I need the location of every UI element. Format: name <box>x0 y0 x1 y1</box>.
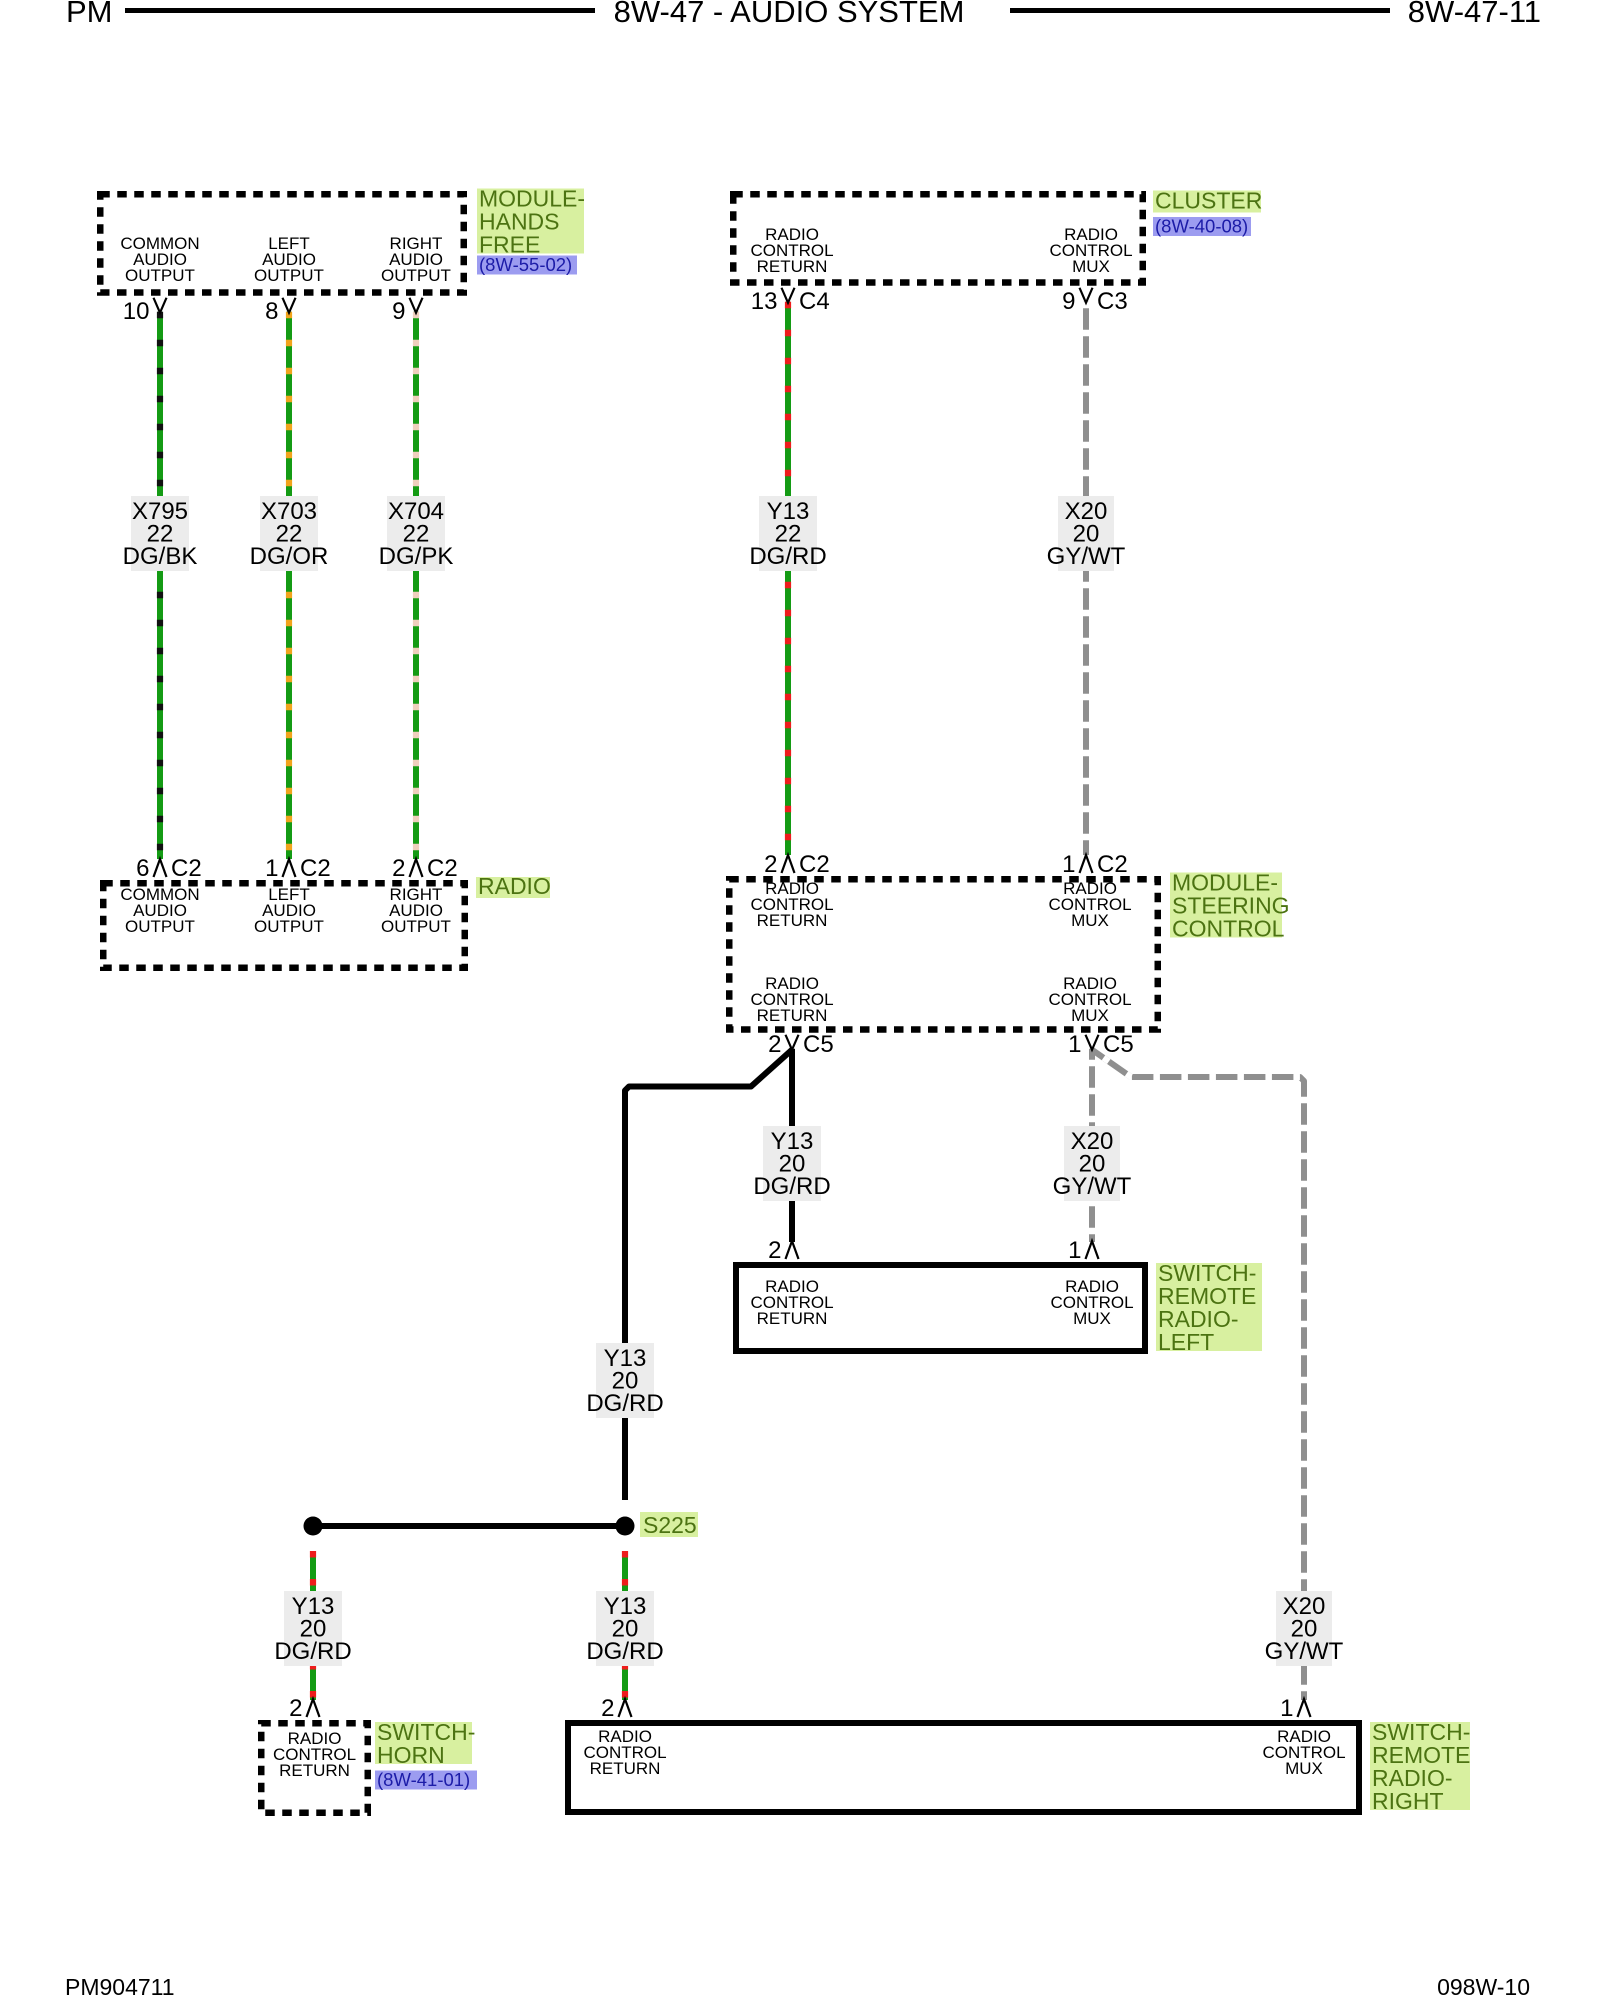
svg-text:2: 2 <box>764 851 777 878</box>
svg-text:1: 1 <box>1062 851 1075 878</box>
svg-text:LEFT: LEFT <box>1158 1329 1214 1355</box>
svg-text:1: 1 <box>1068 1237 1081 1264</box>
svg-text:DG/RD: DG/RD <box>274 1638 351 1665</box>
svg-text:MUX: MUX <box>1073 1309 1111 1328</box>
svg-text:(8W-41-01): (8W-41-01) <box>377 1769 470 1790</box>
svg-text:DG/BK: DG/BK <box>123 543 198 570</box>
svg-text:RETURN: RETURN <box>757 1309 828 1328</box>
svg-text:1: 1 <box>1068 1031 1081 1058</box>
svg-text:098W-10: 098W-10 <box>1437 1974 1530 2000</box>
svg-text:MUX: MUX <box>1071 911 1109 930</box>
svg-text:OUTPUT: OUTPUT <box>125 917 195 936</box>
svg-text:8W-47-11: 8W-47-11 <box>1408 0 1541 29</box>
svg-text:DG/OR: DG/OR <box>250 543 329 570</box>
svg-text:RADIO: RADIO <box>478 873 551 899</box>
svg-text:10: 10 <box>123 298 150 325</box>
svg-text:MUX: MUX <box>1285 1759 1323 1778</box>
svg-text:GY/WT: GY/WT <box>1265 1638 1344 1665</box>
svg-text:2: 2 <box>601 1695 614 1722</box>
svg-text:8W-47 - AUDIO SYSTEM: 8W-47 - AUDIO SYSTEM <box>614 0 965 29</box>
svg-text:2: 2 <box>289 1695 302 1722</box>
svg-text:8: 8 <box>265 298 278 325</box>
svg-text:DG/RD: DG/RD <box>586 1638 663 1665</box>
svg-text:1: 1 <box>1280 1695 1293 1722</box>
svg-text:RIGHT: RIGHT <box>1372 1788 1444 1814</box>
svg-text:C2: C2 <box>171 855 202 882</box>
svg-text:C3: C3 <box>1097 288 1128 315</box>
svg-text:GY/WT: GY/WT <box>1047 543 1126 570</box>
svg-text:DG/RD: DG/RD <box>749 543 826 570</box>
svg-text:C2: C2 <box>427 855 458 882</box>
svg-text:9: 9 <box>1062 288 1075 315</box>
svg-text:OUTPUT: OUTPUT <box>254 917 324 936</box>
svg-text:C4: C4 <box>799 288 830 315</box>
svg-text:OUTPUT: OUTPUT <box>381 266 451 285</box>
svg-text:1: 1 <box>265 855 278 882</box>
svg-text:GY/WT: GY/WT <box>1053 1173 1132 1200</box>
svg-text:9: 9 <box>392 298 405 325</box>
svg-text:MUX: MUX <box>1072 257 1110 276</box>
svg-text:C2: C2 <box>1097 851 1128 878</box>
svg-text:DG/RD: DG/RD <box>753 1173 830 1200</box>
svg-text:OUTPUT: OUTPUT <box>254 266 324 285</box>
svg-text:C2: C2 <box>300 855 331 882</box>
svg-text:2: 2 <box>768 1237 781 1264</box>
svg-text:RETURN: RETURN <box>590 1759 661 1778</box>
svg-text:C5: C5 <box>803 1031 834 1058</box>
svg-text:RETURN: RETURN <box>279 1761 350 1780</box>
svg-text:RETURN: RETURN <box>757 911 828 930</box>
svg-text:DG/PK: DG/PK <box>379 543 454 570</box>
svg-text:2: 2 <box>392 855 405 882</box>
svg-text:6: 6 <box>136 855 149 882</box>
svg-text:CLUSTER: CLUSTER <box>1155 188 1262 214</box>
svg-text:HORN: HORN <box>377 1742 445 1768</box>
svg-text:(8W-55-02): (8W-55-02) <box>479 254 572 275</box>
svg-text:RETURN: RETURN <box>757 1006 828 1025</box>
svg-text:2: 2 <box>768 1031 781 1058</box>
svg-text:PM904711: PM904711 <box>65 1974 175 2000</box>
svg-text:PM: PM <box>66 0 113 29</box>
svg-text:MUX: MUX <box>1071 1006 1109 1025</box>
svg-text:CONTROL: CONTROL <box>1172 916 1285 942</box>
svg-text:S225: S225 <box>643 1512 697 1538</box>
svg-text:(8W-40-08): (8W-40-08) <box>1155 216 1248 237</box>
svg-text:C2: C2 <box>799 851 830 878</box>
svg-text:13: 13 <box>751 288 778 315</box>
svg-text:C5: C5 <box>1103 1031 1134 1058</box>
svg-text:OUTPUT: OUTPUT <box>381 917 451 936</box>
svg-text:OUTPUT: OUTPUT <box>125 266 195 285</box>
svg-text:RETURN: RETURN <box>757 257 828 276</box>
svg-text:DG/RD: DG/RD <box>586 1390 663 1417</box>
